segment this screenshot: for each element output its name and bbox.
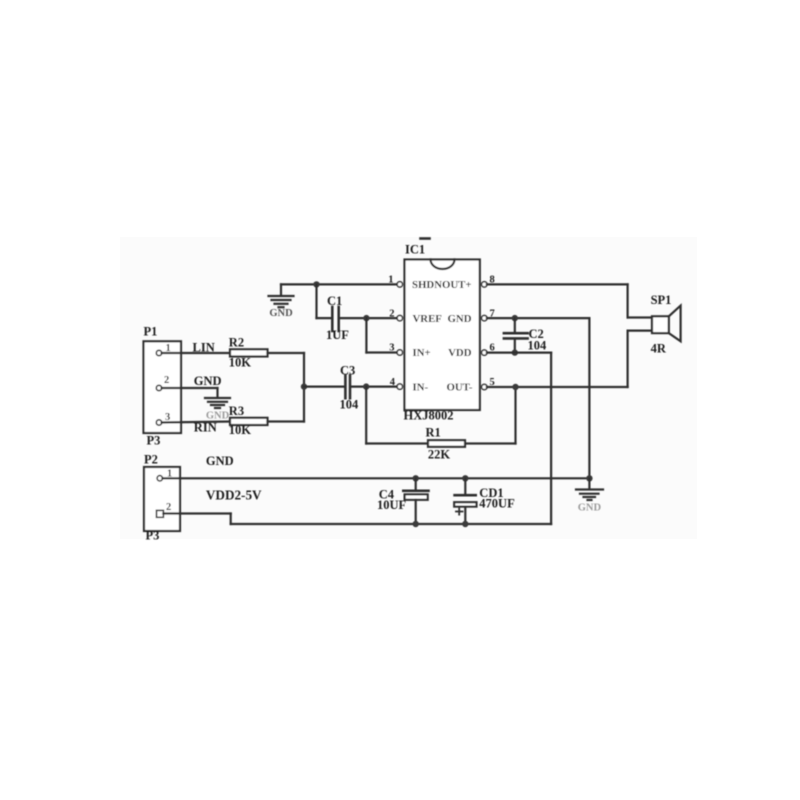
svg-text:R3: R3	[229, 404, 244, 418]
svg-text:SP1: SP1	[651, 293, 672, 307]
svg-text:104: 104	[340, 398, 360, 412]
svg-text:2: 2	[166, 502, 171, 513]
svg-text:IN+: IN+	[413, 347, 431, 359]
svg-text:C3: C3	[340, 364, 355, 378]
svg-text:1UF: 1UF	[326, 328, 349, 342]
svg-text:VDD2-5V: VDD2-5V	[206, 488, 262, 503]
svg-text:C1: C1	[327, 294, 342, 308]
svg-text:P2: P2	[144, 453, 158, 467]
svg-text:SHDN: SHDN	[412, 279, 442, 291]
svg-text:10K: 10K	[229, 355, 252, 369]
svg-text:P3: P3	[146, 529, 160, 543]
svg-text:2: 2	[164, 375, 169, 386]
svg-text:GND: GND	[448, 313, 472, 325]
svg-text:OUT+: OUT+	[442, 279, 472, 291]
svg-text:P3: P3	[147, 434, 161, 448]
svg-text:IC1: IC1	[405, 243, 425, 257]
svg-text:470UF: 470UF	[479, 497, 515, 511]
svg-text:P1: P1	[144, 325, 158, 339]
svg-text:VDD: VDD	[448, 347, 472, 359]
svg-text:10UF: 10UF	[377, 498, 407, 512]
svg-text:GND: GND	[578, 503, 602, 514]
svg-text:IN-: IN-	[413, 382, 429, 394]
svg-text:22K: 22K	[428, 448, 451, 462]
svg-text:104: 104	[528, 339, 548, 353]
svg-text:4R: 4R	[651, 342, 667, 356]
svg-text:LIN: LIN	[193, 341, 215, 355]
svg-text:GND: GND	[194, 374, 222, 388]
svg-text:GND: GND	[206, 454, 234, 468]
svg-text:GND: GND	[269, 308, 293, 319]
svg-text:R1: R1	[426, 426, 441, 440]
svg-text:OUT-: OUT-	[446, 382, 472, 394]
svg-text:HXJ8002: HXJ8002	[404, 409, 454, 423]
svg-text:10K: 10K	[229, 423, 252, 437]
svg-text:RIN: RIN	[194, 420, 217, 434]
svg-text:R2: R2	[229, 335, 244, 349]
svg-text:VREF: VREF	[413, 313, 443, 325]
